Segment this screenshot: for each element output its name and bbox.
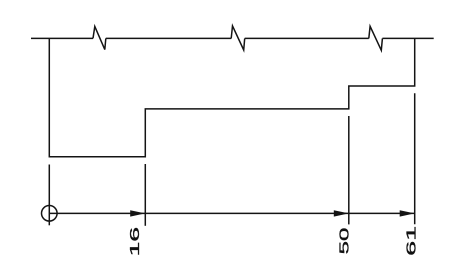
break symbol 3 <box>369 26 383 50</box>
break symbol 2 <box>231 26 245 50</box>
break symbol 1 <box>93 26 106 49</box>
svg-text:16: 16 <box>128 227 142 257</box>
origin circle <box>42 206 58 222</box>
extension line at x=415 <box>414 93 416 224</box>
wire top horizontal line segment 4 <box>382 37 433 39</box>
svg-text:50: 50 <box>337 227 352 254</box>
origin vertical line <box>48 165 50 226</box>
wire top horizontal line segment 2 <box>106 37 231 39</box>
stepped profile outline <box>49 38 414 156</box>
arrow at 50 <box>334 210 349 216</box>
wire top horizontal line segment 3 <box>245 37 369 39</box>
extension line at x=349 <box>348 116 350 224</box>
svg-text:61: 61 <box>404 226 419 256</box>
arrow at 16 <box>130 210 145 216</box>
dimension line <box>49 212 414 214</box>
arrow at 61 <box>400 210 415 216</box>
extension line at x=145 <box>144 164 146 226</box>
wire top horizontal line segment 1 <box>31 37 93 39</box>
